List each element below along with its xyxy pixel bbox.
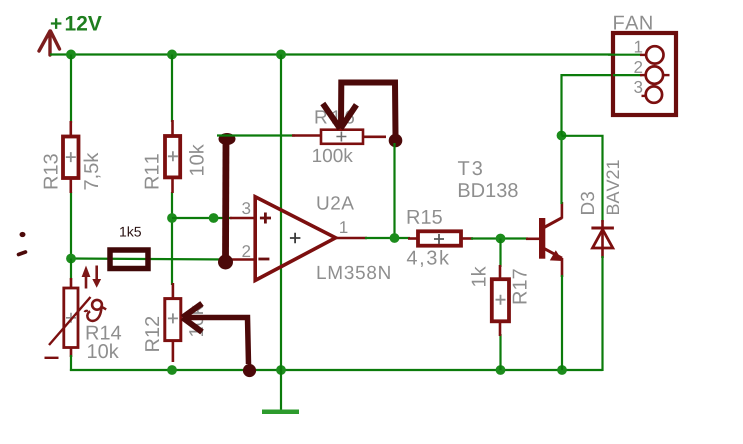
junction on pin3 wire bbox=[209, 213, 219, 223]
wire opamp supply vertical (through opamp) bbox=[280, 55, 282, 371]
value 1k R17 bbox=[471, 266, 485, 286]
pin 3 stub bbox=[230, 217, 255, 220]
wire R11 branch vertical bbox=[171, 55, 173, 286]
wire rail into FAN pin1 bbox=[608, 54, 642, 56]
FAN pin1 bbox=[640, 46, 664, 63]
pot R16 right pin bbox=[362, 136, 386, 139]
potentiometer R12 pins bbox=[172, 283, 175, 362]
node +12V supply symbol bbox=[39, 16, 102, 55]
label T3 bbox=[458, 161, 482, 175]
op-amp center origin cross bbox=[290, 233, 301, 244]
label BD138 bbox=[459, 183, 518, 197]
wire into FAN pin2 bbox=[613, 74, 642, 76]
junction bottom rail / T3 emitter bbox=[557, 365, 567, 375]
FAN pin2 bbox=[640, 66, 670, 83]
wire pot wiper node down to output bbox=[393, 143, 395, 238]
pin 1 output stub bbox=[336, 237, 367, 240]
junction sense node bbox=[66, 254, 76, 264]
stray mark dot 2 bbox=[19, 252, 26, 255]
R12 wiper arrow to ground (hand drawn) bbox=[183, 304, 257, 378]
wire R13 branch vertical bbox=[70, 55, 72, 259]
pin number 2 bbox=[634, 61, 642, 73]
R16 wiper arrow loop (hand drawn) bbox=[323, 83, 403, 148]
T3 base pin bbox=[526, 238, 540, 241]
T3 emitter pin bbox=[561, 258, 564, 277]
resistor R15 body bbox=[418, 231, 461, 245]
op-amp + input mark bbox=[260, 213, 271, 224]
wire collector up to fan node bbox=[560, 136, 562, 205]
junction output / feedback bbox=[390, 233, 400, 243]
potentiometer R16 body bbox=[321, 130, 363, 144]
label LM358N bbox=[318, 266, 390, 279]
wire D3 to bottom rail bbox=[601, 256, 603, 371]
T3 collector pin bbox=[561, 202, 564, 219]
value BAV21 bbox=[606, 160, 619, 214]
junction top rail / R13 branch bbox=[66, 50, 76, 60]
label D3 bbox=[581, 192, 594, 214]
pin number 3 bbox=[242, 202, 250, 214]
pot R16 left pin bbox=[292, 134, 322, 137]
label R12 bbox=[145, 317, 159, 351]
wire +12V top rail bbox=[50, 53, 613, 55]
value 100k bbox=[313, 148, 353, 162]
wire divider node to opamp pin3 bbox=[172, 217, 232, 219]
label R11 bbox=[145, 154, 159, 188]
label R13 bbox=[44, 154, 58, 188]
wire fan node to D3 bbox=[562, 136, 603, 222]
wire bottom rail bbox=[70, 369, 603, 371]
value 1k5 bbox=[120, 226, 141, 236]
connector FAN body bbox=[613, 33, 676, 115]
resistor R13 pins bbox=[70, 121, 73, 193]
wire fan node to FAN pin2 bbox=[562, 75, 643, 135]
junction bottom rail / R12 bbox=[167, 365, 177, 375]
R14 temperature theta symbol (hand drawn) bbox=[85, 300, 107, 321]
pin number 1 bbox=[340, 221, 347, 233]
wire R14 to bottom rail bbox=[70, 355, 72, 371]
transistor T3 body bbox=[539, 218, 563, 261]
op-amp - input mark bbox=[258, 258, 269, 261]
value 4,3k bbox=[407, 250, 449, 267]
resistor R15 pins bbox=[408, 237, 473, 240]
junction base node / R17 bbox=[496, 234, 506, 244]
resistor R17 pins bbox=[499, 265, 502, 336]
pin 2 stub bbox=[230, 258, 255, 261]
junction divider node to opamp pin3 bbox=[167, 213, 177, 223]
op-amp U2A body bbox=[255, 197, 335, 281]
wire sense node horizontal to pin2 bbox=[71, 259, 232, 260]
resistor R17 body bbox=[492, 279, 509, 321]
junction bottom rail / ground bbox=[276, 365, 286, 375]
value 10k R12 bbox=[189, 305, 204, 336]
feedback link pot wiper to pin2 (hand drawn) bbox=[218, 133, 236, 270]
wire output to R15 bbox=[365, 237, 410, 239]
resistor R11 pins bbox=[171, 120, 174, 193]
junction bottom rail / R17 bbox=[496, 365, 506, 375]
label R15 bbox=[408, 210, 442, 224]
resistor R13 body bbox=[63, 137, 79, 179]
junction top rail / R11 branch bbox=[167, 50, 177, 60]
value 10k R11 bbox=[189, 144, 204, 175]
pin number 1 bbox=[635, 41, 642, 53]
R14 adjust arrows (hand drawn) bbox=[82, 266, 102, 289]
wire emitter to bottom rail bbox=[561, 275, 563, 370]
stray mark dot 1 bbox=[20, 232, 26, 237]
thermistor R14 pins bbox=[70, 278, 73, 357]
junction top rail / opamp supply branch bbox=[276, 50, 286, 60]
pin number 3 bbox=[634, 81, 642, 93]
label R17 bbox=[513, 269, 527, 303]
resistor R11 body bbox=[165, 136, 180, 177]
wire R15 to T3 base bbox=[471, 237, 528, 239]
thermistor R14 body bbox=[45, 288, 91, 358]
wire R14 branch bbox=[70, 259, 72, 281]
FAN pin3 bbox=[642, 86, 663, 102]
label R14 bbox=[87, 326, 121, 340]
value 10k R14 bbox=[88, 344, 119, 359]
label FAN bbox=[614, 16, 652, 30]
junction fan node bbox=[557, 131, 567, 141]
resistor 1k5 body (hand drawn) bbox=[110, 250, 148, 269]
label R16 bbox=[316, 110, 354, 123]
wire R17 branch bbox=[499, 239, 501, 371]
wire pot left terminal bbox=[217, 134, 295, 136]
ground symbol bbox=[262, 370, 299, 412]
value 7,5k bbox=[84, 153, 101, 190]
potentiometer R12 body bbox=[165, 299, 181, 341]
label U2A bbox=[317, 196, 353, 209]
pin number 2 bbox=[242, 245, 250, 257]
diode D3 body bbox=[591, 220, 614, 258]
